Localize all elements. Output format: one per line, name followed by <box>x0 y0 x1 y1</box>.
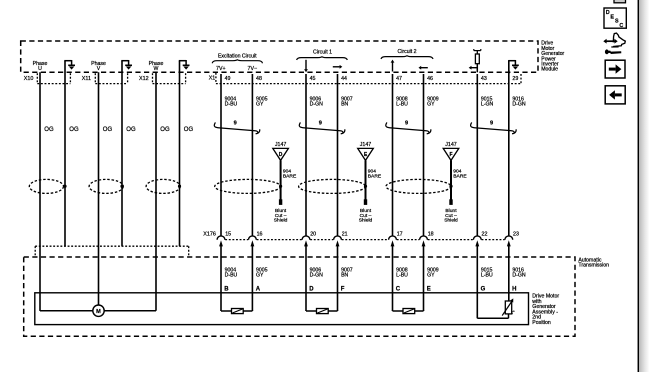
phase pass-through connector (dotted) <box>35 246 189 256</box>
svg-text:48: 48 <box>256 76 262 82</box>
svg-text:L-GN: L-GN <box>481 101 494 107</box>
svg-text:GY: GY <box>256 273 264 279</box>
wire 9004 D-BU lower run <box>220 245 222 311</box>
svg-text:X176: X176 <box>203 231 216 237</box>
splice J147 F <box>443 142 467 224</box>
arrow up out of pin 47 <box>391 60 395 72</box>
arrow left at pin 43 <box>469 66 478 70</box>
wire 9008 L-BU lower run <box>392 245 394 311</box>
svg-text:X10: X10 <box>24 76 34 82</box>
svg-text:29: 29 <box>512 76 518 82</box>
svg-text:GY: GY <box>427 273 435 279</box>
svg-text:W: W <box>154 66 159 72</box>
svg-text:9: 9 <box>405 120 408 126</box>
Drive Motor with Generator Assembly box <box>35 293 529 325</box>
svg-text:20: 20 <box>310 231 316 237</box>
svg-text:OG: OG <box>126 127 136 133</box>
svg-text:J147: J147 <box>275 142 287 148</box>
arrow left at pin 46 <box>419 66 428 70</box>
twisted pair symbol 9 (circuit 1) <box>299 120 345 133</box>
pin 45 label X1 <box>310 76 316 82</box>
arrow right at pin 44 <box>333 65 343 69</box>
label 9008 L-BU lower <box>396 268 408 279</box>
label 9005 GY upper <box>256 96 268 107</box>
label X176 <box>203 231 216 237</box>
svg-text:18: 18 <box>428 231 434 237</box>
label OG <box>184 127 194 133</box>
connector X12 <box>139 73 186 83</box>
resistor R-excitation supply on pin 43 <box>474 49 481 72</box>
shield ellipse phase U pair <box>29 179 66 193</box>
pin E label drive motor <box>427 286 431 292</box>
ground G-pin29 symbol <box>508 60 519 74</box>
pin 48 label X1 <box>256 76 262 82</box>
label Phase U <box>33 61 48 72</box>
wire 9016 D-GN upper run <box>508 70 510 236</box>
svg-text:47: 47 <box>396 76 402 82</box>
label Excitation Circuit <box>218 54 257 60</box>
wire 9009 GY lower run <box>423 245 425 311</box>
svg-text:OG: OG <box>44 127 54 133</box>
svg-text:7V−: 7V− <box>248 66 258 72</box>
motor M <box>93 305 104 316</box>
twisted pair symbol 9 (circuit 2) <box>386 120 431 133</box>
wire 9006 D-GN lower run <box>305 245 307 311</box>
svg-text:X11: X11 <box>82 76 91 82</box>
pin 29 label X1 <box>512 76 518 82</box>
label 9006 D-GN lower <box>310 268 324 279</box>
pin 46 label X1 <box>427 76 433 82</box>
wire 9006 D-GN upper run <box>305 74 307 236</box>
svg-text:9: 9 <box>319 120 322 126</box>
coil L1 (excitation winding) <box>221 309 252 314</box>
label Phase V <box>91 61 106 72</box>
svg-text:GY: GY <box>427 101 435 107</box>
shield ellipse phase W pair <box>146 179 181 193</box>
pin H label drive motor <box>512 286 516 292</box>
icon forward arrow box <box>605 60 625 78</box>
svg-text:D-GN: D-GN <box>310 101 324 107</box>
svg-text:J147: J147 <box>360 142 372 148</box>
label Circuit 2 <box>397 49 416 55</box>
svg-text:D-GN: D-GN <box>512 273 526 279</box>
label 9007 BN upper <box>341 96 353 107</box>
pin 17 label X176 <box>397 231 403 237</box>
svg-text:Position: Position <box>532 320 551 326</box>
svg-text:F: F <box>449 152 452 158</box>
svg-text:9: 9 <box>490 120 493 126</box>
icon back arrow box <box>605 86 625 104</box>
svg-text:17: 17 <box>397 231 403 237</box>
page edge vertical line <box>637 0 639 372</box>
wire 9016 D-GN lower run <box>508 245 510 301</box>
label Drive Motor Generator Power Inverter Module <box>541 41 564 73</box>
svg-text:46: 46 <box>427 76 433 82</box>
label 9015 L-GN upper <box>481 96 494 107</box>
shield ellipse phase V pair <box>89 179 124 193</box>
svg-text:C: C <box>619 23 623 29</box>
brace excitation circuit <box>212 59 262 63</box>
label 9015 L-BU lower <box>481 268 493 279</box>
Automatic Transmission outline (dashed box) <box>24 257 575 336</box>
label 9009 GY lower <box>427 268 439 279</box>
label 9016 D-GN lower <box>512 268 526 279</box>
label Circuit 1 <box>313 49 332 55</box>
label OG <box>160 127 170 133</box>
splice J147 E <box>358 142 382 224</box>
shield ellipse circuit 1 pair <box>299 179 368 193</box>
connector X10 <box>24 73 71 83</box>
svg-text:21: 21 <box>342 231 348 237</box>
svg-text:Shield: Shield <box>359 218 373 224</box>
icon partial box (top, cut off) <box>614 0 626 3</box>
svg-text:OG: OG <box>184 127 194 133</box>
ground G-phase-W symbol and drain wire <box>179 60 190 246</box>
splice J147 D <box>273 142 297 224</box>
label 7V- <box>248 66 258 72</box>
wire phase V (OG) <box>98 72 100 305</box>
svg-text:Shield: Shield <box>274 218 288 224</box>
label 9006 D-GN upper <box>310 96 324 107</box>
pin G label drive motor <box>481 286 486 292</box>
label 7V+ <box>216 66 226 72</box>
coil L2 (circuit 1 winding) <box>306 309 338 314</box>
coil L3 (circuit 2 winding) <box>393 309 424 314</box>
svg-text:Circuit 2: Circuit 2 <box>397 49 416 55</box>
wire phase W to motor <box>104 310 156 312</box>
brace circuit 2 <box>381 55 433 59</box>
svg-text:Circuit 1: Circuit 1 <box>313 49 332 55</box>
svg-text:S: S <box>615 19 619 25</box>
label 9004 D-BU upper <box>225 96 238 107</box>
pin B label drive motor <box>224 286 229 292</box>
pin 20 label X176 <box>310 231 316 237</box>
wire 9005 GY upper run <box>251 74 253 236</box>
svg-text:BN: BN <box>341 101 348 107</box>
wire 9007 BN upper run <box>337 74 339 236</box>
pin 18 label X176 <box>428 231 434 237</box>
pin 22 label X176 <box>482 231 488 237</box>
svg-text:M: M <box>96 309 101 315</box>
Drive Motor Generator Power Inverter Module outline (dashed box) <box>21 41 538 72</box>
thermistor RT (motor temperature sensor) <box>477 298 515 318</box>
svg-text:L-BU: L-BU <box>481 273 493 279</box>
wire 9015 L-BU lower run <box>476 245 478 319</box>
connector X1 line <box>216 73 521 84</box>
svg-text:D-BU: D-BU <box>225 273 238 279</box>
svg-text:BARE: BARE <box>283 174 297 180</box>
svg-text:F: F <box>341 286 345 292</box>
pin 49 label X1 <box>225 76 231 82</box>
svg-text:D: D <box>606 10 610 16</box>
brace circuit 1 <box>297 56 348 60</box>
icon DESC box <box>604 8 626 29</box>
svg-text:Shield: Shield <box>444 218 458 224</box>
wire phase W (OG) <box>155 72 157 310</box>
label 9007 BN lower <box>341 268 353 279</box>
svg-text:Excitation Circuit: Excitation Circuit <box>218 54 257 60</box>
pin 47 label X1 <box>396 76 402 82</box>
wire 9005 GY lower run <box>251 245 253 311</box>
pin 44 label X1 <box>341 76 347 82</box>
pin 15 label X176 <box>225 231 231 237</box>
svg-text:OG: OG <box>160 127 170 133</box>
label OG <box>126 127 136 133</box>
svg-text:7V+: 7V+ <box>216 66 226 72</box>
svg-text:E: E <box>610 14 614 20</box>
label Drive Motor with Generator Assembly - 2nd Position <box>532 294 559 326</box>
arrow down into pin 45 <box>304 60 308 72</box>
shield ellipse circuit 2 pair <box>386 179 453 193</box>
label 9016 D-GN upper <box>512 96 526 107</box>
pin F label drive motor <box>341 286 345 292</box>
connector X11 <box>82 73 128 83</box>
label OG <box>69 127 79 133</box>
svg-text:23: 23 <box>513 231 519 237</box>
wire phase U to motor <box>40 309 93 312</box>
svg-text:U: U <box>38 66 42 72</box>
wire phase U (OG) <box>39 72 41 310</box>
svg-text:D-BU: D-BU <box>225 101 238 107</box>
svg-text:22: 22 <box>482 231 488 237</box>
twisted pair symbol 9 (excitation) <box>214 120 259 133</box>
shield ellipse excitation pair <box>215 179 283 193</box>
svg-text:44: 44 <box>341 76 347 82</box>
svg-text:D: D <box>279 152 283 158</box>
label 9009 GY upper <box>427 96 439 107</box>
label 9008 L-BU upper <box>396 96 408 107</box>
pin A label drive motor <box>256 286 261 292</box>
svg-text:G: G <box>481 286 486 292</box>
svg-text:BARE: BARE <box>453 174 467 180</box>
svg-text:OG: OG <box>103 127 113 133</box>
svg-text:L-BU: L-BU <box>396 101 408 107</box>
svg-text:A: A <box>256 286 261 292</box>
connector X176 pass-through arcs and arrowheads <box>217 236 513 247</box>
svg-text:Transmission: Transmission <box>578 263 609 269</box>
svg-text:43: 43 <box>481 76 487 82</box>
svg-text:C: C <box>396 286 401 292</box>
svg-text:GY: GY <box>256 101 264 107</box>
ground G-phase-V symbol and drain wire <box>121 60 132 246</box>
wire 9007 BN lower run <box>337 245 339 311</box>
svg-text:t°: t° <box>512 310 515 315</box>
svg-text:B: B <box>224 286 229 292</box>
svg-text:BARE: BARE <box>368 174 382 180</box>
svg-text:16: 16 <box>257 231 263 237</box>
svg-text:J147: J147 <box>445 142 457 148</box>
svg-text:OG: OG <box>69 127 79 133</box>
svg-text:D-GN: D-GN <box>310 273 324 279</box>
svg-text:9: 9 <box>234 120 237 126</box>
label Automatic Transmission <box>578 257 609 268</box>
svg-text:15: 15 <box>225 231 231 237</box>
svg-text:X1: X1 <box>209 76 216 82</box>
svg-text:D: D <box>309 286 314 292</box>
label 9005 GY lower <box>256 268 268 279</box>
pin 23 label X176 <box>513 231 519 237</box>
svg-text:49: 49 <box>225 76 231 82</box>
svg-text:45: 45 <box>310 76 316 82</box>
svg-text:BN: BN <box>341 273 348 279</box>
svg-text:H: H <box>512 286 516 292</box>
svg-text:E: E <box>427 286 431 292</box>
icon vehicle with wrench <box>603 33 625 54</box>
wire 9015 L-GN upper run <box>476 74 478 236</box>
label Phase W <box>149 61 164 72</box>
pin 43 label X1 <box>481 76 487 82</box>
page edge shadow gradient <box>639 0 649 372</box>
connector X176 dotted line <box>225 239 504 241</box>
ground G-phase-U symbol and drain wire <box>64 60 75 246</box>
wire 9004 D-BU upper run <box>220 74 222 236</box>
pin D label drive motor <box>309 286 314 292</box>
label OG <box>103 127 113 133</box>
pin 21 label X176 <box>342 231 348 237</box>
svg-text:V: V <box>97 66 101 72</box>
label 9004 D-BU lower <box>225 268 238 279</box>
wire 9008 L-BU upper run <box>392 74 394 236</box>
svg-text:Module: Module <box>541 67 558 73</box>
twisted pair symbol 9 (temp sensor) <box>471 120 517 133</box>
label OG <box>44 127 54 133</box>
label X1 <box>209 76 216 82</box>
wire 9009 GY upper run <box>423 74 425 236</box>
svg-text:X12: X12 <box>139 76 149 82</box>
pin C label drive motor <box>396 286 401 292</box>
svg-text:D-GN: D-GN <box>512 101 526 107</box>
pin 16 label X176 <box>257 231 263 237</box>
svg-text:L-BU: L-BU <box>396 273 408 279</box>
